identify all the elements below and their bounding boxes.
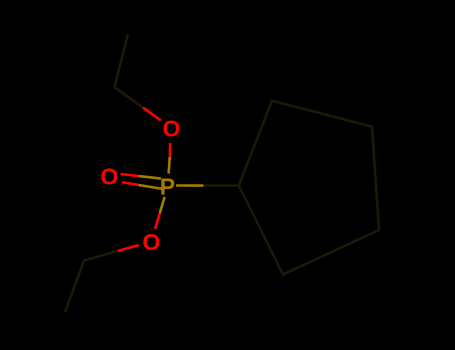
P-O bottom bond olive half: [160, 197, 165, 214]
cyclopentane ring: [239, 101, 379, 275]
O-CH2 bottom bond red half: [118, 245, 139, 251]
svg-text:P: P: [160, 174, 175, 200]
P-C ipso bond olive half: [176, 184, 203, 187]
P-O top bond red half: [169, 143, 172, 157]
P-O bottom bond red half: [155, 214, 160, 230]
P-O top bond olive half: [169, 157, 170, 174]
svg-text:O: O: [163, 115, 181, 141]
CH2-CH3 bottom bond: [65, 261, 84, 313]
P=O double bond upper line red half: [121, 174, 139, 176]
P=O double bond lower line red half: [122, 182, 139, 185]
P=O double bond upper line olive half: [139, 176, 161, 179]
O-CH2 bottom bond dark half: [84, 251, 118, 261]
O-CH2 top bond dark half: [115, 87, 144, 107]
CH2-CH3 top bond: [115, 34, 129, 87]
P=O double bond lower line olive half: [139, 185, 163, 189]
O-CH2 top bond red half: [143, 108, 161, 121]
P-C ipso bond dark half: [203, 184, 238, 187]
svg-text:O: O: [100, 164, 118, 190]
svg-text:O: O: [142, 229, 160, 255]
